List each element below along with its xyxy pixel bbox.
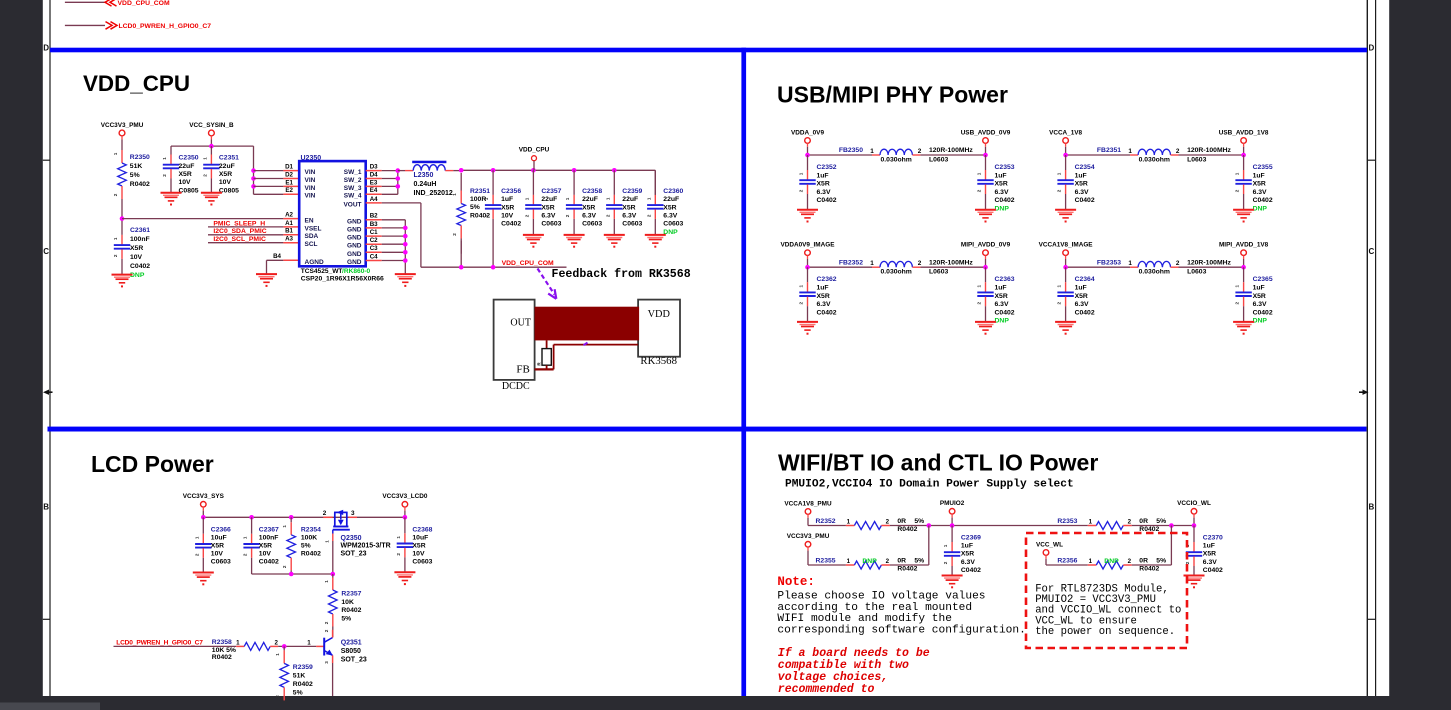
capacitor C2350 [162,146,199,194]
svg-text:2: 2 [524,214,529,217]
svg-text:C0402: C0402 [995,309,1015,316]
svg-text:1: 1 [847,558,851,565]
wire pin A4 VOUT [366,202,382,204]
junction [612,168,617,173]
svg-text:USB/MIPI PHY Power: USB/MIPI PHY Power [777,82,1008,108]
svg-text:Q2351: Q2351 [341,640,362,647]
svg-text:10V: 10V [412,551,425,558]
svg-text:X5R: X5R [817,181,830,188]
svg-text:1: 1 [396,536,401,539]
ground [395,274,416,287]
svg-text:R0402: R0402 [130,181,150,188]
svg-text:X5R: X5R [995,293,1008,300]
svg-text:Please choose IO voltage value: Please choose IO voltage values [777,591,985,603]
svg-text:51K: 51K [293,672,306,679]
svg-text:X5R: X5R [130,245,143,252]
svg-text:D4: D4 [370,171,378,178]
resistor R2357 [324,574,362,627]
svg-text:1: 1 [282,525,287,528]
off-page connector VDD_CPU_COM [105,0,170,7]
svg-text:R0402: R0402 [212,654,232,661]
svg-text:R2351: R2351 [470,188,490,195]
power flag VDDA_0V9 [791,129,824,155]
svg-text:R2356: R2356 [1057,557,1077,564]
block RK3568 box [638,300,680,368]
svg-text:SDA: SDA [305,233,319,240]
svg-text:2: 2 [1185,561,1190,564]
svg-text:6.3V: 6.3V [817,301,831,308]
svg-text:22uF: 22uF [541,196,557,203]
svg-text:6.3V: 6.3V [817,189,831,196]
svg-text:C2369: C2369 [961,535,981,542]
wire pin E2 [254,193,284,195]
power flag VCC3V3_PMU [101,122,144,150]
ferrite bead FB2352 [808,259,986,275]
wire [278,645,316,647]
svg-text:L0603: L0603 [929,156,948,163]
junction [249,515,254,520]
svg-text:C2355: C2355 [1253,164,1273,171]
capacitor C2366 [194,517,231,572]
svg-text:USB_AVDD_1V8: USB_AVDD_1V8 [1219,129,1269,136]
svg-text:2: 2 [918,148,922,155]
svg-text:C2350: C2350 [179,155,199,162]
svg-text:1uF: 1uF [501,196,513,203]
net label I2C0_SCL_PMIC [208,236,299,243]
wire pin E1 [254,185,284,187]
svg-text:1: 1 [1089,558,1093,565]
svg-text:2: 2 [1057,189,1062,192]
svg-text:PMUIO2: PMUIO2 [940,500,965,507]
svg-text:TCS4525_WT: TCS4525_WT [301,268,343,275]
svg-text:2: 2 [323,510,327,517]
svg-text:X5R: X5R [1253,181,1266,188]
svg-text:MIPI_AVDD_1V8: MIPI_AVDD_1V8 [1219,242,1269,249]
ferrite bead FB2351 [1066,147,1244,163]
svg-text:R2350: R2350 [130,154,150,161]
svg-text:2: 2 [282,565,287,568]
svg-text:DNP: DNP [862,558,877,565]
svg-text:GND: GND [347,259,362,266]
junction VCCA1V8_IMAGE [1063,265,1068,270]
wire pin E4 [366,193,382,195]
svg-text:SOT_23: SOT_23 [341,550,367,557]
resistor R2358 [212,639,279,661]
svg-text:1uF: 1uF [1203,543,1215,550]
svg-text:2: 2 [1235,189,1240,192]
wire pin D2 [254,178,284,180]
svg-text:5%: 5% [1156,518,1166,525]
svg-text:C2370: C2370 [1203,535,1223,542]
svg-text:E2: E2 [285,187,293,194]
svg-text:0.24uH: 0.24uH [414,181,437,188]
svg-text:5%: 5% [914,557,924,564]
capacitor C2351 [202,146,239,194]
power flag VCC_SYSIN_B [189,122,234,146]
svg-text:1: 1 [243,536,248,539]
svg-text:6.3V: 6.3V [961,559,975,566]
svg-text:5%: 5% [470,204,480,211]
svg-text:1uF: 1uF [1253,285,1265,292]
capacitor C2353 [977,155,1015,213]
wire [252,573,333,575]
svg-text:5%: 5% [301,543,311,550]
power flag VCC3V3_PMU [787,533,830,565]
svg-text:2: 2 [918,260,922,267]
junction [403,234,408,239]
ground [1184,576,1205,589]
wire pin D4 [366,178,382,180]
svg-text:10V: 10V [501,213,514,220]
svg-text:C0402: C0402 [1075,309,1095,316]
svg-text:SW_4: SW_4 [344,193,362,200]
ground [1233,210,1254,223]
junction [403,242,408,247]
svg-text:A2: A2 [285,212,293,219]
wire [1170,526,1172,566]
ground [523,235,544,248]
junction [459,265,464,270]
wire pin E3 [366,185,382,187]
power flag MIPI_AVDD_0V9 [961,242,1011,268]
svg-text:2: 2 [1057,301,1062,304]
svg-text:2: 2 [886,558,890,565]
svg-text:120R-100MHz: 120R-100MHz [1187,147,1231,154]
svg-text:D2: D2 [285,171,293,178]
svg-text:DNP: DNP [130,272,145,279]
svg-text:X5R: X5R [1075,181,1088,188]
power flag VDD_CPU [519,146,550,170]
capacitor C2365 [1235,267,1273,325]
power flag VCCA_1V8 [1049,129,1082,155]
svg-text:X5R: X5R [582,204,595,211]
svg-text:C3: C3 [370,245,378,252]
svg-text:VCC_WL: VCC_WL [1036,541,1063,548]
svg-text:3: 3 [351,510,355,517]
svg-text:2: 2 [943,561,948,564]
bottom scrollbar thumb [0,703,100,710]
svg-text:1uF: 1uF [995,285,1007,292]
svg-text:C2361: C2361 [130,227,150,234]
left edge marker arrow [43,390,49,395]
divider horizontal top [50,48,1367,53]
svg-text:2: 2 [1176,260,1180,267]
svg-text:LCD0_PWREN_H_GPIO0_C7: LCD0_PWREN_H_GPIO0_C7 [119,23,212,30]
capacitor C2359 [605,170,642,235]
wire gate [332,534,334,542]
svg-text:C0402: C0402 [1253,197,1273,204]
svg-text:C2363: C2363 [995,276,1015,283]
svg-text:LCD Power: LCD Power [91,451,214,477]
wire [928,526,930,566]
ground [1055,210,1076,223]
svg-text:100nF: 100nF [259,535,279,542]
wire [65,1,105,3]
svg-text:2: 2 [886,518,890,525]
svg-text:2: 2 [977,301,982,304]
svg-text:1: 1 [1057,284,1062,287]
svg-text:1: 1 [113,237,118,240]
svg-text:E4: E4 [370,187,378,194]
junction VCC_SYSIN_B rail [209,144,214,149]
svg-text:2: 2 [646,214,651,217]
svg-text:1: 1 [1128,148,1132,155]
svg-text:VIN: VIN [305,177,316,184]
sheet border line right outer [1375,0,1377,696]
svg-text:2: 2 [565,214,570,217]
svg-text:C0402: C0402 [1203,567,1223,574]
wire [890,564,929,566]
svg-text:SOT_23: SOT_23 [341,657,367,664]
svg-text:2: 2 [977,189,982,192]
capacitor C2370 [1185,526,1223,576]
svg-text:X5R: X5R [179,171,192,178]
junction [251,168,256,173]
svg-text:6.3V: 6.3V [1253,301,1267,308]
svg-text:recommended to: recommended to [778,683,875,696]
svg-text:5%: 5% [130,172,140,179]
svg-text:2: 2 [113,193,118,196]
svg-text:C2357: C2357 [541,188,561,195]
svg-text:1uF: 1uF [817,285,829,292]
svg-text:0.030ohm: 0.030ohm [1139,269,1170,276]
text note body [777,591,1025,637]
svg-text:VIN: VIN [305,169,316,176]
svg-text:C0603: C0603 [582,221,602,228]
svg-text:C0805: C0805 [179,187,199,194]
svg-text:0.030ohm: 0.030ohm [881,269,912,276]
svg-text:C2354: C2354 [1075,164,1095,171]
resistor R2351 [452,173,490,254]
svg-text:10V: 10V [179,179,192,186]
svg-text:SW_1: SW_1 [344,169,362,176]
junction [289,515,294,520]
svg-text:E3: E3 [370,179,378,186]
svg-text:C0402: C0402 [130,263,150,270]
svg-text:C2359: C2359 [622,188,642,195]
svg-text:X5R: X5R [622,204,635,211]
svg-text:1: 1 [162,157,167,160]
svg-text:2: 2 [113,254,118,257]
svg-text:22uF: 22uF [663,196,679,203]
svg-text:2: 2 [194,553,199,556]
power flag VCC_WL [1036,541,1063,565]
svg-text:2: 2 [275,695,280,698]
capacitor C2360 [646,170,683,236]
svg-text:10uF: 10uF [412,535,428,542]
block DCDC box [494,300,535,392]
wire AGND [267,259,284,261]
svg-text:GND: GND [347,235,362,242]
svg-text:6.3V: 6.3V [541,213,555,220]
svg-text:X5R: X5R [501,204,514,211]
junction [396,184,401,189]
svg-text:6.3V: 6.3V [1253,189,1267,196]
svg-text:1: 1 [324,540,329,543]
sheet border line right inner [1366,0,1368,696]
svg-text:6.3V: 6.3V [1075,189,1089,196]
svg-text:C0402: C0402 [1253,309,1273,316]
svg-text:DNP: DNP [995,318,1010,325]
svg-text:1: 1 [484,197,489,200]
svg-text:R2357: R2357 [341,591,361,598]
svg-text:C2352: C2352 [817,164,837,171]
row tick left y619 [43,618,50,620]
svg-text:22uF: 22uF [582,196,598,203]
svg-text:C0805: C0805 [219,187,239,194]
svg-text:1: 1 [1089,518,1093,525]
svg-text:10V: 10V [219,179,232,186]
resistor R2353 [1057,518,1166,533]
svg-text:1uF: 1uF [1075,172,1087,179]
ground [201,193,222,206]
svg-text:VDD_CPU_COM: VDD_CPU_COM [502,260,554,267]
svg-text:VDDA0V9_IMAGE: VDDA0V9_IMAGE [781,242,836,249]
junction [403,250,408,255]
svg-text:A3: A3 [285,236,293,243]
svg-text:1: 1 [324,580,329,583]
row tick right y619 [1367,618,1375,620]
wire pin B2 [366,219,382,221]
net label PMIC_SLEEP_H [208,220,299,228]
svg-text:10K 5%: 10K 5% [212,647,236,654]
wire [404,220,406,274]
svg-text:VOUT: VOUT [343,201,361,208]
svg-text:10V: 10V [259,551,272,558]
svg-text:FB2350: FB2350 [839,147,863,154]
svg-text:R2359: R2359 [293,664,313,671]
wire EN [122,218,283,220]
svg-text:C0603: C0603 [211,559,231,566]
wire [420,203,422,267]
wire [114,645,237,647]
svg-text:GND: GND [347,243,362,250]
svg-text:R2358: R2358 [212,639,232,646]
junction MIPI_AVDD_1V8 [1241,265,1246,270]
wire pin C2 [366,243,382,245]
power flag VCCIO_WL [1177,500,1211,525]
svg-text:0R: 0R [897,557,906,564]
svg-text:10V: 10V [211,551,224,558]
svg-text:C0402: C0402 [259,559,279,566]
svg-text:VCCIO_WL: VCCIO_WL [1177,500,1211,507]
svg-text:X5R: X5R [219,171,232,178]
ground [564,235,585,248]
svg-text:L0603: L0603 [1187,269,1206,276]
ground [256,274,277,287]
svg-text:100nF: 100nF [130,236,150,243]
svg-text:C2353: C2353 [995,164,1015,171]
svg-text:1: 1 [307,639,311,646]
svg-text:1: 1 [799,284,804,287]
svg-text:VCC3V3_LCD0: VCC3V3_LCD0 [382,493,428,500]
capacitor C2357 [524,170,561,235]
capacitor C2361 [113,219,150,280]
svg-text:R0402: R0402 [301,551,321,558]
ground [112,275,133,288]
svg-text:R0402: R0402 [293,681,313,688]
svg-text:6.3V: 6.3V [1075,301,1089,308]
row tick right y160 [1367,159,1375,161]
svg-text:C: C [1369,247,1375,256]
svg-text:C0603: C0603 [541,221,561,228]
ground [975,210,996,223]
junction [331,572,336,577]
text red italic note [778,647,930,696]
svg-text:X5R: X5R [817,293,830,300]
svg-text:1: 1 [1128,260,1132,267]
svg-text:VCCA1V8_IMAGE: VCCA1V8_IMAGE [1039,242,1094,249]
svg-text:5%: 5% [293,689,303,696]
svg-text:2: 2 [452,233,457,236]
svg-text:1: 1 [194,536,199,539]
svg-text:R0402: R0402 [1139,566,1159,573]
junction USB_AVDD_0V9 [983,153,988,158]
junction [289,572,294,577]
svg-text:1: 1 [977,172,982,175]
svg-text:VDD_CPU_COM: VDD_CPU_COM [118,0,170,7]
ferrite bead FB2350 [808,147,986,163]
wire [808,564,846,566]
junction [1169,523,1174,528]
svg-text:B2: B2 [370,213,378,220]
net label I2C0_SDA_PMIC [208,228,299,236]
svg-text:1: 1 [605,197,610,200]
svg-text:B: B [43,503,49,512]
svg-text:1: 1 [870,148,874,155]
ground [975,322,996,335]
capacitor C2362 [799,267,837,322]
svg-text:C2356: C2356 [501,188,521,195]
svg-text:B4: B4 [273,253,281,260]
svg-text:PMUIO2,VCCIO4 IO Domain Power: PMUIO2,VCCIO4 IO Domain Power Supply sel… [785,479,1074,491]
feedback resistor divider [537,340,552,369]
svg-text:C2366: C2366 [211,527,231,534]
junction [396,176,401,181]
svg-text:WIFI module and modify the: WIFI module and modify the [777,613,952,625]
svg-text:VSEL: VSEL [305,225,322,232]
junction VDDA0V9_IMAGE [805,265,810,270]
junction [950,523,955,528]
svg-text:D3: D3 [370,164,378,171]
svg-text:1: 1 [799,172,804,175]
svg-text:X5R: X5R [995,181,1008,188]
junction MIPI_AVDD_0V9 [983,265,988,270]
resistor R2356 [1057,557,1166,572]
svg-text:X5R: X5R [1075,293,1088,300]
svg-text:X5R: X5R [259,543,272,550]
junction [251,176,256,181]
svg-text:1: 1 [113,152,118,155]
wire [421,266,567,268]
junction EN node [120,216,125,221]
svg-text:1: 1 [452,193,457,196]
ground [1233,322,1254,335]
power flag VCCA1V8_IMAGE [1039,242,1094,268]
junction [403,515,408,520]
svg-text:VCC3V3_SYS: VCC3V3_SYS [183,493,225,500]
svg-text:C0402: C0402 [1075,197,1095,204]
svg-text:FB2351: FB2351 [1097,147,1121,154]
svg-text:0.030ohm: 0.030ohm [1139,156,1170,163]
wire [65,24,105,26]
capacitor C2364 [1057,267,1095,322]
junction [1192,523,1197,528]
svg-text:EN: EN [305,217,314,224]
svg-text:S8050: S8050 [341,648,361,655]
capacitor C2369 [943,526,981,576]
sheet border line left [49,0,51,696]
